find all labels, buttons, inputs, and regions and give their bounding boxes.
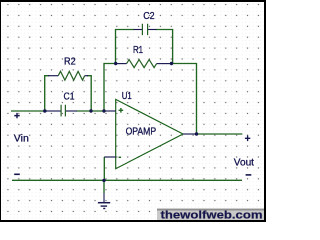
svg-text:Vin: Vin [14, 133, 29, 145]
svg-text:R1: R1 [133, 45, 143, 56]
svg-text:Vout: Vout [234, 156, 254, 168]
svg-text:OPAMP: OPAMP [126, 127, 157, 138]
svg-text:C2: C2 [143, 11, 155, 22]
svg-text:thewolfweb.com: thewolfweb.com [161, 209, 263, 221]
svg-text:R2: R2 [64, 56, 76, 67]
svg-text:U1: U1 [122, 91, 132, 102]
svg-text:C1: C1 [64, 91, 75, 102]
